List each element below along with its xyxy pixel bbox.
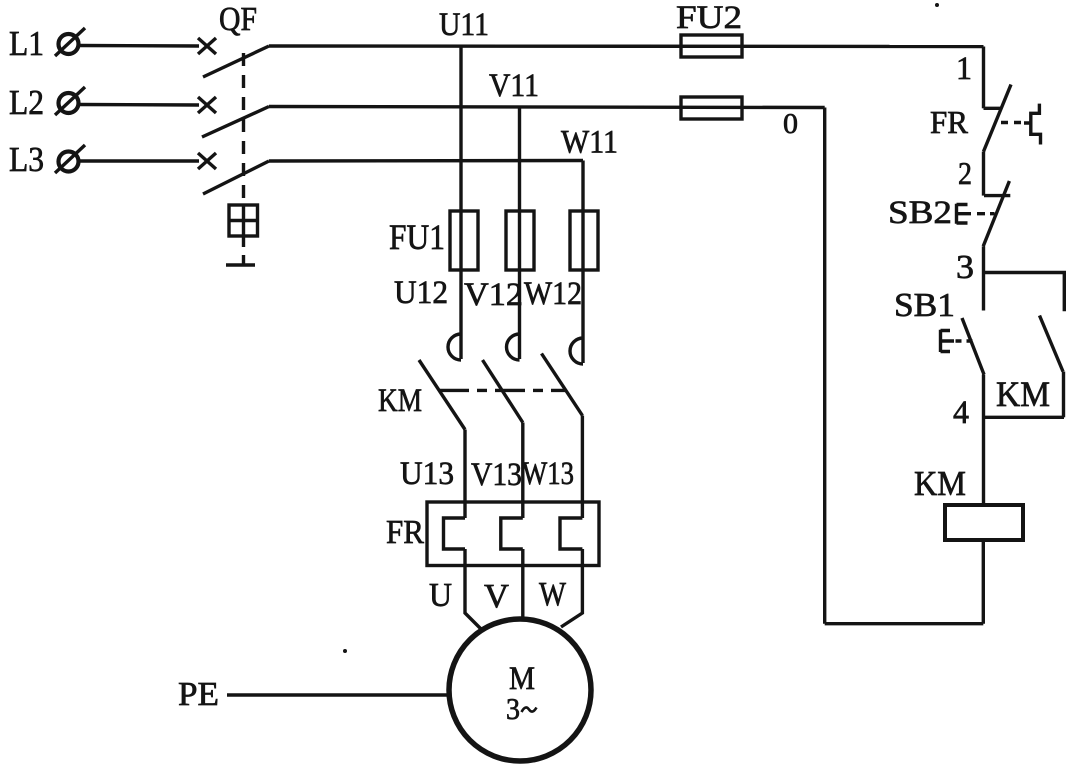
wire coil to bottom bbox=[982, 540, 985, 624]
svg-text:KM: KM bbox=[996, 374, 1050, 414]
QF blade pole 3 bbox=[203, 161, 269, 194]
QF fixed contact X pole 3 bbox=[198, 153, 216, 169]
fuse FU1a bbox=[450, 211, 478, 270]
KM aux contact blade bbox=[1040, 316, 1064, 372]
wire KM aux bottom leg bbox=[1062, 372, 1065, 418]
wire control top drop bbox=[982, 47, 985, 109]
pushbutton SB1 NO blade bbox=[962, 318, 984, 375]
wire 1-2 bbox=[982, 152, 985, 196]
QF blade pole 2 bbox=[202, 107, 269, 138]
svg-text:L2: L2 bbox=[9, 83, 44, 122]
wire node 4 horizontal bbox=[984, 416, 1065, 419]
svg-text:4: 4 bbox=[953, 395, 969, 431]
svg-text:3: 3 bbox=[506, 691, 520, 726]
wire bus L3 bbox=[269, 159, 583, 163]
svg-text:W11: W11 bbox=[561, 125, 618, 161]
svg-text:W13: W13 bbox=[522, 456, 574, 492]
wire motor lead W bbox=[561, 566, 582, 628]
wire U11 drop bbox=[459, 46, 462, 359]
wire branch to KM aux bbox=[985, 273, 1064, 312]
wire neutral 0 vertical bbox=[823, 108, 826, 624]
pushbutton SB2 NC bbox=[983, 181, 1010, 246]
FR heater element 3 bbox=[560, 518, 582, 566]
wire V13 bbox=[521, 423, 524, 519]
fuse FU2a bbox=[681, 35, 742, 57]
wire W11 drop bbox=[581, 161, 584, 364]
wire L1 to QF bbox=[79, 44, 199, 48]
svg-text:2: 2 bbox=[958, 155, 972, 191]
QF actuator bbox=[226, 257, 255, 265]
svg-text:V12: V12 bbox=[464, 277, 523, 313]
wire SB1 to coil bbox=[982, 375, 985, 506]
wire L2 to QF bbox=[79, 103, 199, 107]
wire bottom return bbox=[825, 622, 984, 625]
wire U13 bbox=[463, 430, 466, 519]
speck artifact top right bbox=[935, 3, 939, 7]
svg-text:U: U bbox=[429, 577, 452, 614]
wire motor lead V bbox=[521, 566, 524, 620]
wire motor lead U bbox=[465, 566, 481, 630]
svg-text:0: 0 bbox=[783, 109, 798, 140]
svg-text:1: 1 bbox=[956, 51, 972, 87]
KM main contact hook pole 2 bbox=[507, 334, 520, 360]
svg-text:KM: KM bbox=[914, 464, 966, 503]
svg-text:PE: PE bbox=[178, 676, 219, 713]
svg-text:QF: QF bbox=[219, 1, 257, 38]
wire L3 to QF bbox=[79, 159, 199, 162]
svg-text:U12: U12 bbox=[394, 275, 448, 311]
terminal L2 bbox=[55, 87, 85, 115]
fuse FU1b bbox=[506, 211, 534, 270]
label tilde of 3~ bbox=[522, 708, 537, 713]
svg-text:V13: V13 bbox=[471, 457, 522, 493]
QF actuator link dashed bbox=[242, 236, 245, 257]
svg-text:W: W bbox=[539, 576, 567, 613]
svg-text:V: V bbox=[484, 578, 509, 615]
FR NC contact bbox=[984, 85, 1012, 152]
QF fixed contact X pole 2 bbox=[198, 97, 216, 113]
SB1 actuator E bbox=[941, 330, 955, 352]
FR contact dashed link bbox=[1001, 121, 1025, 124]
SB2 actuator E bbox=[957, 204, 972, 224]
SB2 actuator dashed link bbox=[977, 212, 995, 215]
svg-text:SB1: SB1 bbox=[894, 287, 955, 324]
wire bus L2 bbox=[269, 107, 825, 108]
wire PE bbox=[227, 693, 448, 696]
wire SB1 top stub bbox=[982, 273, 985, 311]
svg-text:L3: L3 bbox=[9, 140, 44, 179]
KM main linkage dash-dot bbox=[439, 389, 566, 392]
svg-text:U11: U11 bbox=[439, 7, 489, 43]
svg-text:L1: L1 bbox=[9, 24, 44, 63]
wire V11 drop bbox=[518, 107, 521, 360]
KM main blade pole 2 bbox=[483, 360, 523, 423]
FR heater element 2 bbox=[501, 518, 523, 566]
QF blade pole 1 bbox=[203, 46, 269, 77]
svg-text:KM: KM bbox=[378, 383, 422, 419]
fuse FU1c bbox=[570, 211, 598, 270]
svg-text:3: 3 bbox=[956, 249, 974, 286]
svg-text:FU2: FU2 bbox=[676, 0, 742, 36]
fuse FU2b bbox=[681, 97, 742, 119]
wire W13 bbox=[581, 416, 584, 519]
svg-text:U13: U13 bbox=[400, 456, 454, 492]
thermal relay FR box bbox=[427, 502, 599, 566]
FR heater element 1 bbox=[444, 518, 466, 566]
KM main blade pole 1 bbox=[419, 360, 465, 430]
wire 2-3 bbox=[982, 246, 985, 272]
svg-text:SB2: SB2 bbox=[888, 195, 952, 231]
KM main blade pole 3 bbox=[542, 354, 583, 416]
KM main contact hook pole 1 bbox=[448, 334, 461, 360]
svg-text:FR: FR bbox=[930, 104, 969, 140]
KM main contact hook pole 3 bbox=[570, 338, 583, 364]
svg-text:W12: W12 bbox=[524, 276, 582, 312]
wire bus L1 bbox=[269, 44, 984, 48]
svg-text:FU1: FU1 bbox=[389, 217, 445, 257]
FR thermal element symbol bbox=[1024, 104, 1041, 145]
QF trip unit bbox=[229, 205, 258, 236]
QF mechanical linkage dashed bbox=[242, 53, 245, 205]
KM coil bbox=[945, 505, 1023, 540]
svg-text:FR: FR bbox=[386, 514, 424, 551]
QF fixed contact X pole 1 bbox=[198, 38, 216, 54]
SB1 actuator dashed link bbox=[956, 339, 973, 342]
terminal L3 bbox=[55, 145, 85, 173]
svg-text:V11: V11 bbox=[489, 68, 539, 104]
speck artifact left bbox=[343, 649, 347, 653]
motor M circle bbox=[449, 619, 591, 761]
terminal L1 bbox=[55, 28, 85, 56]
